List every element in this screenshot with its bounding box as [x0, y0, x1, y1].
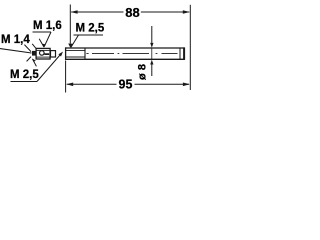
svg-text:95: 95 [119, 78, 133, 92]
svg-text:M 1,4: M 1,4 [1, 34, 30, 46]
svg-text:M 1,6: M 1,6 [33, 20, 62, 32]
svg-text:M 2,5: M 2,5 [76, 23, 105, 35]
svg-text:M 2,5: M 2,5 [10, 69, 39, 81]
svg-text:88: 88 [125, 5, 139, 20]
svg-text:ø 8: ø 8 [137, 64, 149, 80]
